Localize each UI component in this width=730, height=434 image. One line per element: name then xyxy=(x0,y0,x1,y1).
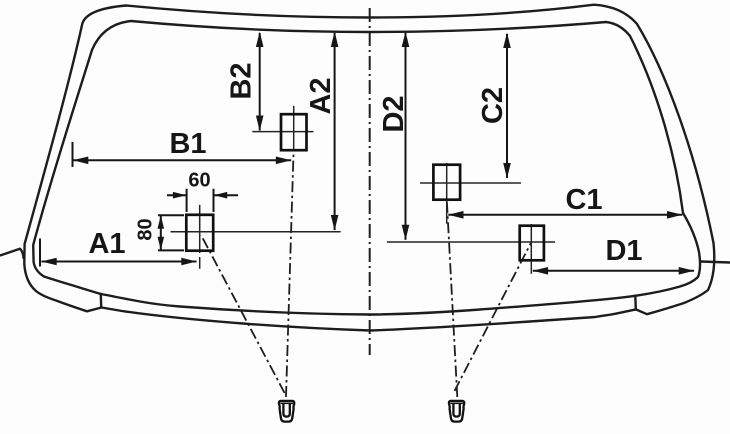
dim C1 line xyxy=(448,214,682,216)
dim B1 line xyxy=(73,159,291,161)
dim 60 arrow tails xyxy=(167,194,238,196)
dim 80 line xyxy=(160,215,162,250)
dim B1 extension tick xyxy=(72,142,74,167)
cowl line exiting left edge xyxy=(1,249,24,258)
dim 60 extension lines xyxy=(187,189,214,212)
arrow C2 down xyxy=(503,163,511,179)
svg-text:C2: C2 xyxy=(477,87,509,124)
dim C2 line xyxy=(506,34,508,178)
arrow B2 down xyxy=(256,116,264,132)
pad1 vertical centreline xyxy=(293,106,295,150)
pad3 horizontal centreline xyxy=(420,182,521,184)
svg-text:A1: A1 xyxy=(88,228,125,260)
arrow A2 down xyxy=(331,215,339,231)
pad D (right) xyxy=(520,226,544,261)
clip fastener right xyxy=(449,401,464,422)
dim A2 line xyxy=(334,33,336,230)
pad B (upper left) xyxy=(281,114,307,150)
arrow B1 right xyxy=(276,157,292,165)
arrow C2 up xyxy=(503,33,511,49)
arrow B2 up xyxy=(256,32,264,48)
arrow D1 right xyxy=(679,267,695,275)
pad4 diagonal leader to right clip xyxy=(455,243,531,391)
svg-text:D2: D2 xyxy=(378,95,410,132)
molding seam left xyxy=(100,294,103,308)
arrow 80 up xyxy=(158,215,165,229)
dim A1 line xyxy=(42,261,197,263)
dim D1 line xyxy=(533,270,694,272)
pad2 vertical centreline xyxy=(199,205,201,269)
arrow 80 down xyxy=(158,237,165,251)
arrow A2 up xyxy=(331,32,339,48)
svg-text:D1: D1 xyxy=(605,235,642,267)
dim 80 extension lines xyxy=(158,215,184,250)
svg-text:B1: B1 xyxy=(169,128,206,160)
mounting pads xyxy=(186,114,544,260)
body line exiting right edge xyxy=(701,262,730,263)
pad1 horizontal centreline xyxy=(252,131,313,133)
svg-text:C1: C1 xyxy=(565,184,602,216)
pad centre construction lines xyxy=(171,106,556,274)
pad3 vertical centreline xyxy=(446,163,448,224)
arrow A1 left xyxy=(41,258,57,266)
molding seam right xyxy=(634,296,637,310)
pad A (left) xyxy=(186,215,213,251)
arrow C1 left xyxy=(448,211,464,219)
pad C (right centre) xyxy=(433,165,460,200)
dimension lines xyxy=(40,33,694,271)
svg-text:A2: A2 xyxy=(305,77,337,114)
pad2 diagonal leader to left clip xyxy=(201,235,285,393)
svg-text:80: 80 xyxy=(135,218,157,240)
vehicle centerline xyxy=(369,8,371,355)
svg-text:60: 60 xyxy=(188,170,210,192)
arrow D1 left xyxy=(533,267,549,275)
arrow B1 left xyxy=(73,157,89,165)
pad1 center leader to left clip xyxy=(286,150,294,397)
arrow 60 right pointing left xyxy=(214,192,228,199)
clip fastener left xyxy=(279,401,294,422)
pad3 center leader to right clip xyxy=(447,200,458,397)
pad4 horizontal centreline xyxy=(387,241,555,243)
arrow D2 down xyxy=(402,225,410,241)
arrowheads xyxy=(41,32,694,275)
arrow A1 right xyxy=(181,258,197,266)
windshield frame outer outline xyxy=(24,5,714,331)
pad2 horizontal centreline xyxy=(171,231,341,233)
arrow D2 up xyxy=(402,32,410,48)
dim A1 extension tick xyxy=(39,239,41,267)
dim B2 line xyxy=(259,33,261,131)
dim D2 line xyxy=(405,33,407,240)
pad4 vertical centreline xyxy=(530,224,532,274)
arrow C1 right xyxy=(667,211,683,219)
svg-text:B2: B2 xyxy=(226,62,258,99)
windshield glass inner edge xyxy=(33,21,700,315)
arrow 60 left pointing right xyxy=(173,192,187,199)
